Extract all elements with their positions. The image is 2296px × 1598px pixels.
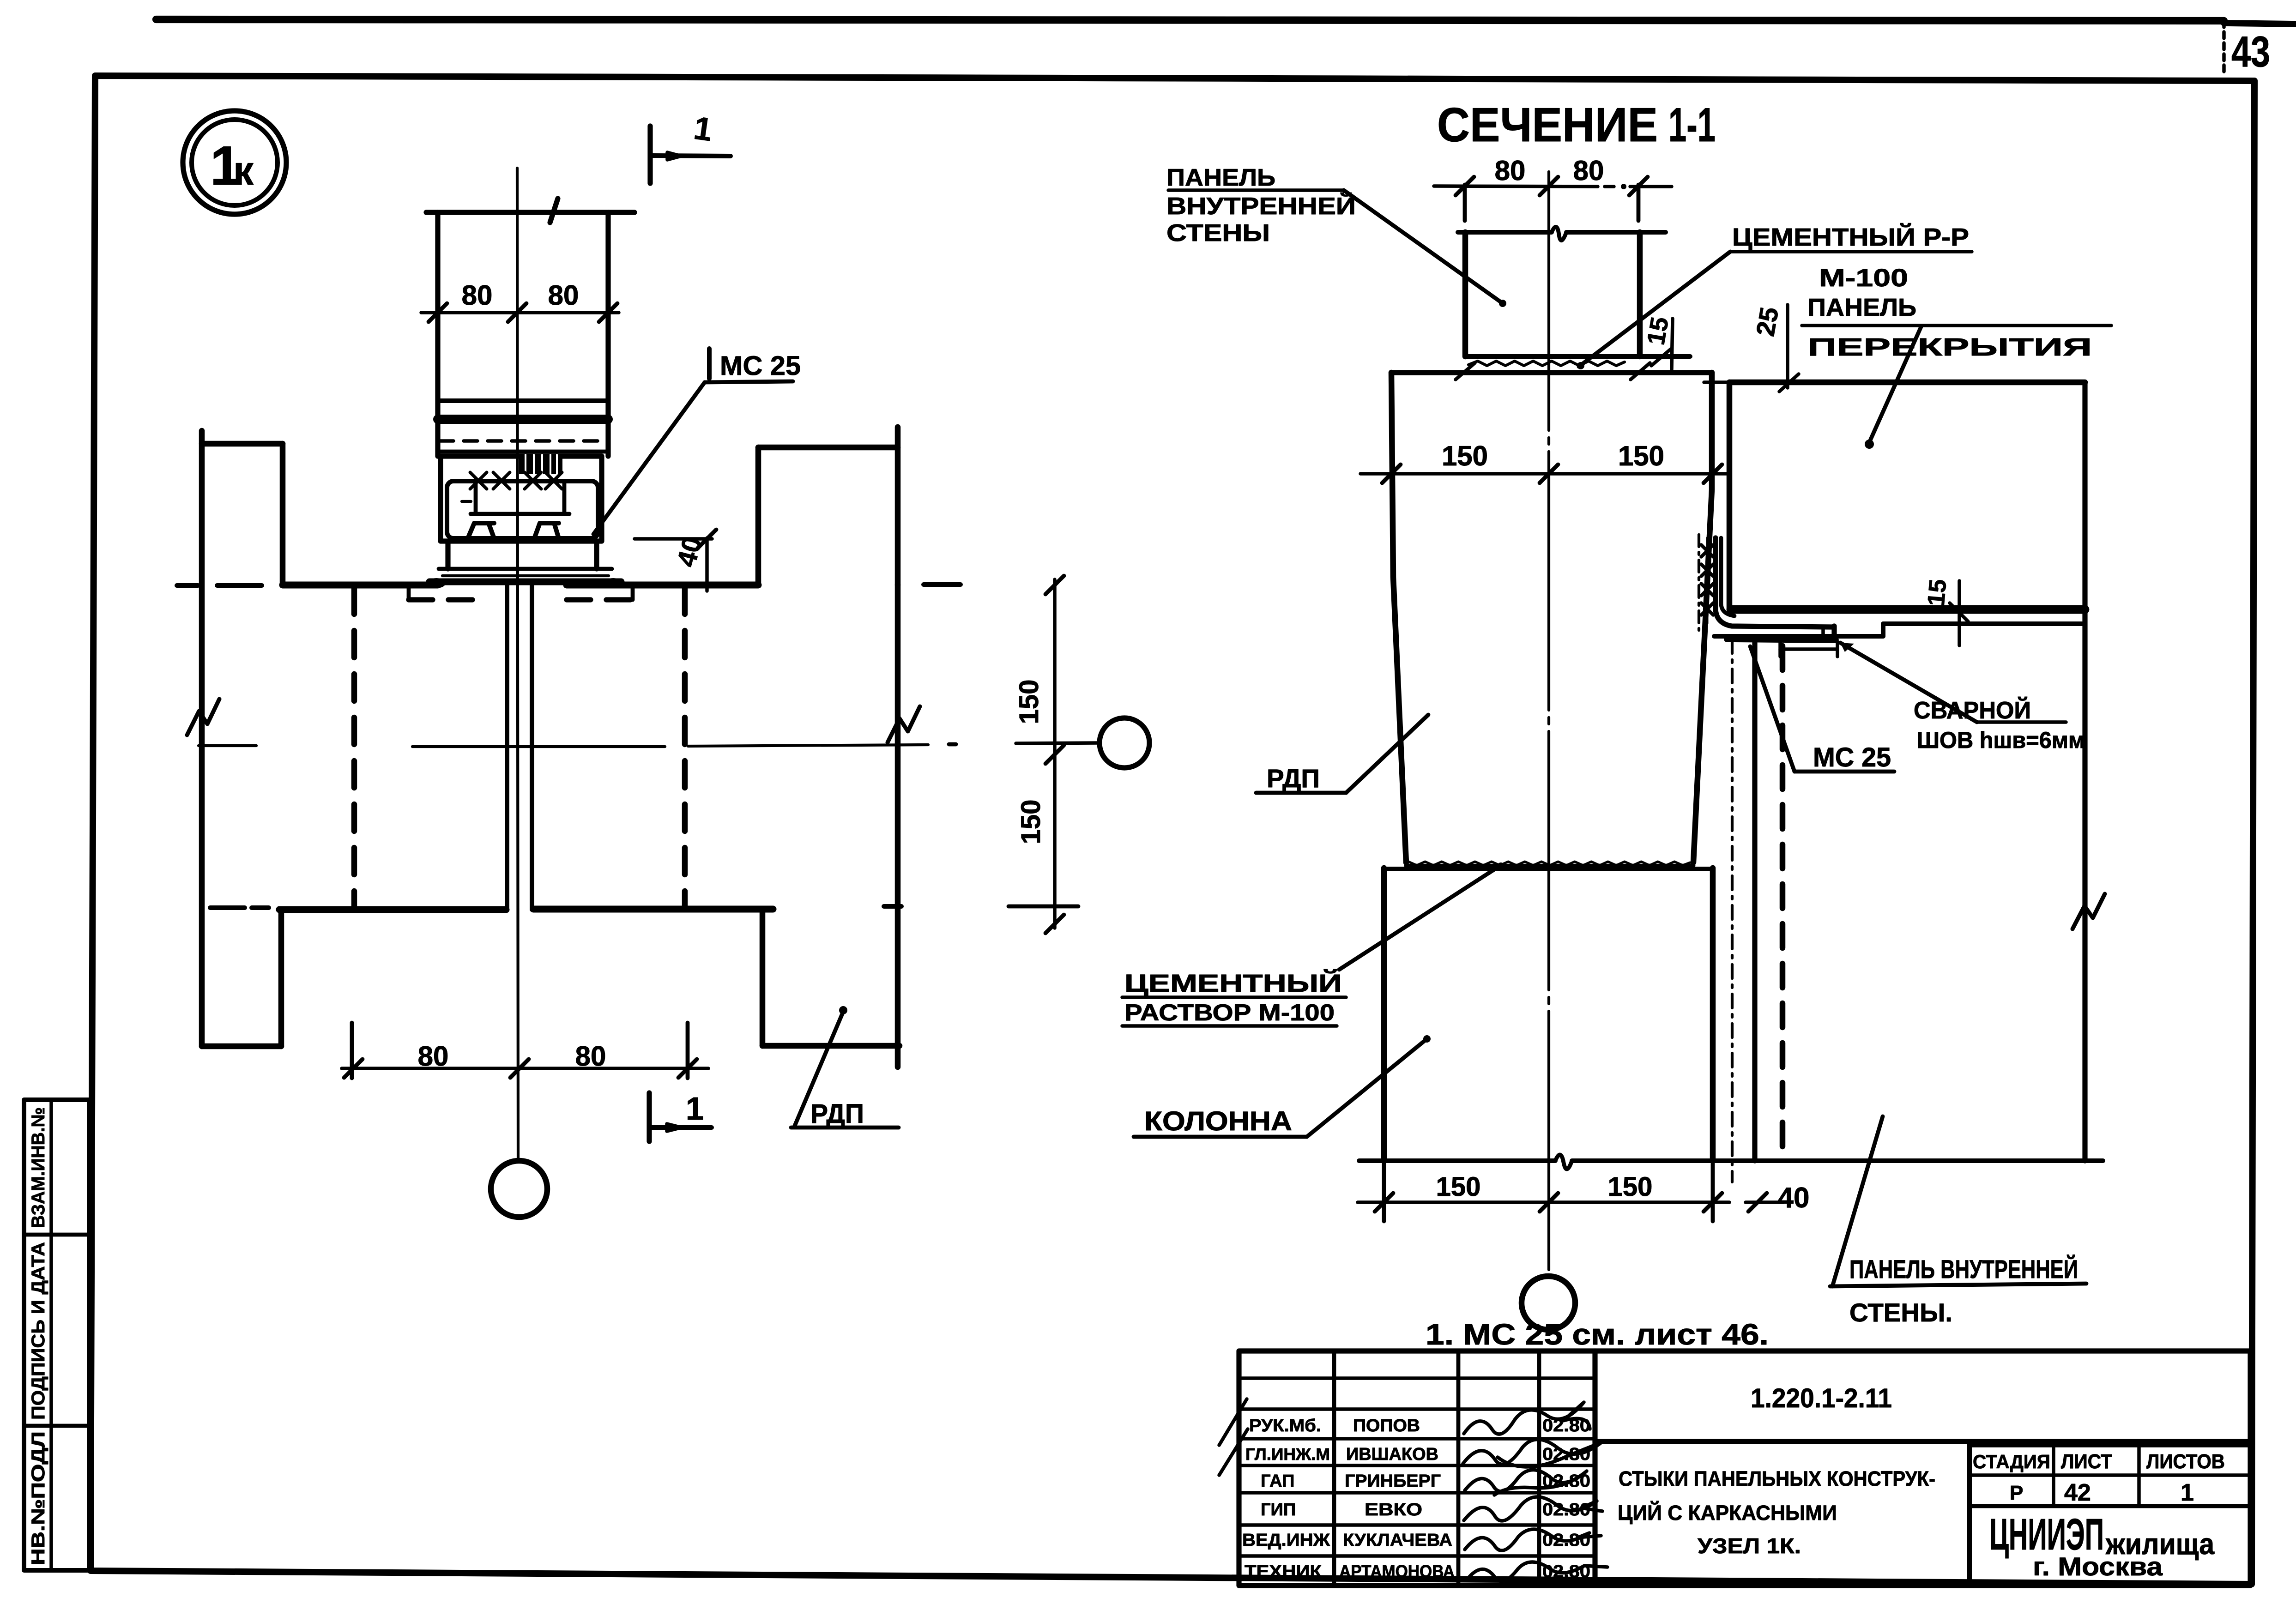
svg-text:РУК.Мб.: РУК.Мб. [1249,1416,1321,1435]
label kolonna [1134,1035,1431,1137]
inner wall panel under slab [1714,382,2085,1161]
dimension 40 (plan) [634,530,716,591]
upper wall panel in plan [426,199,634,456]
joint detail box [441,455,602,541]
axis circle bottom of section [1522,1276,1575,1330]
column upper shaft [1391,373,1712,862]
label panel vnutrennei steny (top left) [1166,164,1506,307]
horizontal centreline of plan [199,743,1100,747]
svg-text:к: к [233,148,254,193]
svg-text:40: 40 [1778,1182,1810,1214]
mortar joint under wall panel [1468,361,1625,366]
svg-text:150: 150 [1014,680,1044,724]
svg-text:80: 80 [1495,155,1526,186]
svg-text:1.220.1-2.11: 1.220.1-2.11 [1751,1383,1892,1413]
drawing name [1618,1467,1935,1558]
svg-text:Р: Р [2010,1482,2023,1504]
svg-text:ПЕРЕКРЫТИЯ: ПЕРЕКРЫТИЯ [1807,333,2092,361]
wall panel right (plan) [758,427,900,1067]
PLAN VIEW [177,110,1149,1217]
section flag 1 bottom [649,1091,712,1141]
svg-text:РДП: РДП [1267,764,1320,793]
side stamp inner vertical [49,1100,53,1570]
label cementny rastvor [1122,862,1504,1026]
svg-text:ПОДПИСЬ И ДАТА: ПОДПИСЬ И ДАТА [28,1242,48,1420]
dimension 25 (gap) [1704,305,1810,392]
svg-text:43: 43 [2231,27,2270,76]
axis circle bottom of plan [491,1161,547,1217]
dimension 15 (mortar) [1642,315,1674,369]
svg-text:ПАНЕЛЬ: ПАНЕЛЬ [1166,164,1275,191]
dimension 80+80 lower plan [342,1023,708,1078]
weld hatch strip [1699,535,1713,630]
stadia list listov grid [1970,1441,2250,1586]
svg-text:ВЕД.ИНЖ: ВЕД.ИНЖ [1242,1531,1330,1550]
svg-text:1-1: 1-1 [1668,98,1716,152]
svg-text:ЦИЙ С КАРКАСНЫМИ: ЦИЙ С КАРКАСНЫМИ [1618,1501,1837,1525]
svg-text:СТЕНЫ.: СТЕНЫ. [1849,1298,1952,1327]
hidden column edges (dashed verticals) [354,587,685,908]
svg-text:ВНУТРЕННЕЙ: ВНУТРЕННЕЙ [1166,193,1356,220]
signature table grid [1239,1351,1595,1586]
svg-text:АРТАМОНОВА: АРТАМОНОВА [1339,1562,1455,1581]
column top edge [1391,370,1712,375]
svg-text:РДП: РДП [810,1099,864,1129]
lower column [1384,868,1713,1161]
svg-text:ВЗАМ.ИНВ.№: ВЗАМ.ИНВ.№ [28,1107,48,1228]
svg-text:80: 80 [462,280,493,311]
floor slab [1729,382,2085,609]
svg-text:СТЫКИ ПАНЕЛЬНЫХ КОНСТРУК-: СТЫКИ ПАНЕЛЬНЫХ КОНСТРУК- [1619,1467,1935,1490]
signatures [1463,1402,1607,1581]
svg-text:ЛИСТОВ: ЛИСТОВ [2146,1450,2225,1473]
section flag 1 top [650,110,731,183]
svg-text:РАСТВОР М-100: РАСТВОР М-100 [1124,1000,1335,1025]
small dim under plate [1780,642,1837,657]
side stamp box [24,1100,89,1570]
table row texts [1242,1416,1590,1581]
ground cut line [1359,1155,2103,1169]
welded joint plate [1716,538,1836,640]
axis dash-dot (section) [1731,639,1734,1182]
dimension 150+150+40 bottom of section [1358,1164,1809,1221]
dimension 80+80 upper plan [421,280,619,322]
tick at panel/column right [1631,363,1650,380]
wall panel left (plan) [202,431,283,1046]
svg-text:80: 80 [418,1041,449,1072]
svg-text:ГРИНБЕРГ: ГРИНБЕРГ [1345,1471,1441,1491]
svg-text:КУКЛАЧЕВА: КУКЛАЧЕВА [1343,1531,1452,1550]
title block outline [1239,1351,2250,1586]
svg-text:СТАДИЯ: СТАДИЯ [1973,1451,2050,1472]
svg-text:ЦЕМЕНТНЫЙ: ЦЕМЕНТНЫЙ [1124,969,1342,997]
svg-text:25: 25 [1750,305,1784,338]
svg-text:1. МС 25 см. лист 46.: 1. МС 25 см. лист 46. [1426,1318,1769,1351]
break mark right wall section [2072,894,2105,929]
column head below joint [427,541,622,588]
svg-text:ЦЕМЕНТНЫЙ Р-Р: ЦЕМЕНТНЫЙ Р-Р [1732,223,1969,251]
upper wall panel (section) [1458,227,1690,356]
vertical centreline of plan [517,168,518,1160]
svg-text:НВ.№ПОДЛ: НВ.№ПОДЛ [28,1431,48,1565]
dimension 15 (slab to panel) [1923,578,1968,645]
svg-text:ШОВ hшв=6мм: ШОВ hшв=6мм [1917,727,2085,753]
svg-text:150: 150 [1016,800,1046,844]
mortar bed on lower column [1406,862,1693,866]
svg-text:80: 80 [575,1041,606,1072]
svg-text:г. Москва: г. Москва [2033,1552,2163,1581]
label cementny r-r M100 [1577,223,1972,369]
wall face line top [177,585,961,585]
svg-text:80: 80 [548,280,579,311]
svg-text:15: 15 [1923,578,1952,607]
side stamp divider 2 [24,1424,89,1428]
svg-text:КОЛОННА: КОЛОННА [1144,1106,1292,1136]
svg-text:ПАНЕЛЬ ВНУТРЕННЕЙ: ПАНЕЛЬ ВНУТРЕННЕЙ [1849,1254,2078,1284]
side stamp divider 1 [24,1233,89,1237]
svg-text:1: 1 [692,110,714,148]
node 1K circle [183,111,286,214]
svg-text:ГИП: ГИП [1261,1500,1296,1520]
check slashes [1219,1399,1248,1475]
page number box divider [2222,21,2226,76]
TITLE BLOCK [1219,1351,2250,1586]
SECTION VIEW [1122,98,2111,1351]
svg-text:ИВШАКОВ: ИВШАКОВ [1346,1445,1438,1464]
label svarnoy shov [1840,643,2085,753]
label panel vnutrennei steny (bottom right) [1830,1116,2086,1327]
institute name [1989,1510,2214,1581]
vertical dimension 150+150 right of plan [1014,576,1064,933]
svg-text:150: 150 [1618,440,1664,471]
label panel perekrytiya [1802,294,2111,449]
svg-text:ЕВКО: ЕВКО [1365,1500,1422,1520]
hidden lines under joint [409,587,633,600]
column stem lines [507,583,532,910]
svg-text:ПОПОВ: ПОПОВ [1353,1416,1420,1435]
svg-text:МС 25: МС 25 [1813,742,1891,772]
svg-text:МС 25: МС 25 [720,351,801,381]
svg-text:150: 150 [1608,1172,1653,1202]
svg-text:150: 150 [1442,440,1488,471]
svg-text:ЛИСТ: ЛИСТ [2061,1450,2112,1473]
label MC25 (plan) [593,349,801,534]
svg-text:ГАП: ГАП [1261,1471,1294,1491]
outer top rule [156,19,2224,21]
label RDP (plan) [791,1006,899,1129]
wall face line bottom [210,906,1078,910]
svg-text:42: 42 [2064,1479,2091,1506]
break mark left wall [187,699,219,735]
axis circle right of plan [1100,718,1149,768]
svg-text:ГЛ.ИНЖ.М: ГЛ.ИНЖ.М [1245,1445,1330,1464]
dimension 80+80 section [1434,155,1672,221]
svg-text:СТЕНЫ: СТЕНЫ [1166,220,1270,247]
hidden edge dashed (section) [1780,646,1786,1161]
svg-text:1: 1 [686,1091,704,1127]
svg-text:ПАНЕЛЬ: ПАНЕЛЬ [1807,294,1916,321]
svg-text:15: 15 [1642,315,1674,347]
break mark right wall [888,706,920,742]
svg-text:1: 1 [2181,1479,2194,1506]
label MC25 (section) [1750,646,1894,772]
svg-text:УЗЕЛ 1К.: УЗЕЛ 1К. [1698,1534,1801,1558]
document number [1595,1383,2250,1441]
vertical centreline of section [1547,172,1550,1275]
label RDP (section) [1256,715,1428,793]
svg-text:ТЕХНИК: ТЕХНИК [1245,1562,1322,1581]
svg-text:М-100: М-100 [1819,264,1908,292]
svg-text:СЕЧЕНИЕ: СЕЧЕНИЕ [1437,98,1658,152]
svg-text:80: 80 [1573,155,1604,186]
dimension 150+150 section upper [1360,440,1729,483]
svg-text:150: 150 [1436,1172,1481,1202]
tick at panel/column left [1456,363,1475,380]
